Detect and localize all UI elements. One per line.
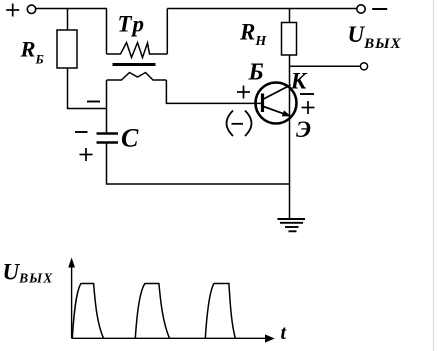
wire transformer primary right lead up [166, 9, 168, 55]
wire RN tap [289, 9, 291, 23]
transistor collector line [264, 85, 291, 99]
plus sign (left supply terminal polarity) [6, 4, 19, 17]
resistor RB [57, 30, 77, 68]
waveform y-axis [71, 263, 73, 338]
waveform pulse 1 [72, 284, 103, 339]
plus sign below capacitor [80, 148, 93, 161]
svg-text:Тр: Тр [118, 12, 146, 37]
svg-text:К: К [290, 68, 308, 93]
svg-text:Э: Э [296, 117, 311, 142]
scan border line [433, 0, 435, 351]
transformer secondary winding [107, 73, 167, 81]
emitter arrowhead [282, 110, 291, 116]
transistor emitter line [264, 107, 290, 116]
terminal circle output lower [360, 63, 367, 70]
transistor circle [256, 83, 297, 124]
waveform pulse 3 [205, 284, 235, 339]
wire RB bottom lead [68, 68, 108, 109]
waveform x-axis [72, 337, 267, 339]
x-axis arrowhead [265, 334, 275, 342]
label (-) right paren [245, 111, 252, 137]
wire secondary left lead down to capacitor [106, 80, 108, 133]
minus sign left of capacitor [75, 131, 88, 133]
y-axis arrowhead [68, 258, 75, 268]
plus sign left of base [237, 86, 250, 99]
plus under K minus [302, 101, 315, 114]
waveform axes [72, 263, 267, 338]
svg-text:C: C [121, 124, 139, 153]
wire RB tap [67, 9, 69, 31]
ground symbol [278, 219, 306, 231]
wire collector/emitter vertical [289, 55, 291, 218]
terminal circle left [27, 5, 35, 13]
capacitor C bottom plate [97, 141, 119, 144]
capacitor C top plate [97, 132, 119, 135]
wire secondary right lead to base [166, 80, 261, 103]
minus sign at RB junction [87, 101, 100, 103]
wire transformer primary left lead [106, 9, 108, 55]
wire capacitor bottom lead [107, 144, 290, 185]
resistor RN [282, 23, 297, 56]
waveform pulse 2 [135, 284, 169, 339]
transistor base bar [261, 94, 264, 113]
wire top rail right segment [167, 8, 356, 10]
label (-) minus [232, 123, 244, 125]
transformer core [113, 63, 156, 66]
transformer primary winding [107, 43, 168, 58]
minus sign at top-right terminal [372, 8, 387, 10]
svg-text:Б: Б [248, 60, 264, 86]
wire top rail left segment [36, 8, 107, 10]
wire to output terminal lower [290, 65, 361, 67]
terminal circle output upper [357, 5, 365, 13]
label (-) left paren [227, 111, 234, 137]
minus under K label [300, 93, 314, 95]
